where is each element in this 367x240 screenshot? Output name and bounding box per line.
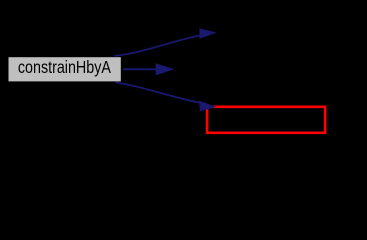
node constrainHbyA	[7, 56, 122, 82]
wire edge1 to top callee	[115, 29, 216, 56]
node truncated (red)	[207, 107, 325, 133]
wire edge2 to middle callee	[123, 64, 173, 75]
svg-text:constrainHbyA: constrainHbyA	[18, 57, 111, 77]
wire edge3 to truncated node	[116, 82, 215, 110]
